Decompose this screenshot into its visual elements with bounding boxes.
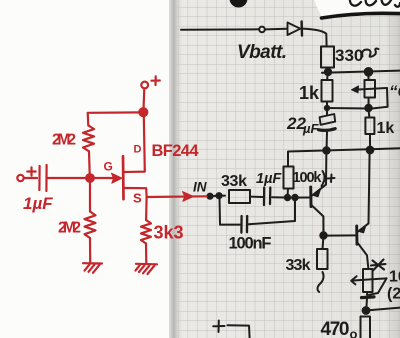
terminal Vbatt [259,27,265,33]
terminal plus top [141,82,148,89]
svg-text:2M2: 2M2 [58,220,81,237]
wire gate node up [88,151,91,175]
node output [363,307,370,314]
resistor 33k lower [317,237,328,292]
resistor 1k (left) [322,75,333,102]
wire base node to Q1 [288,197,310,199]
label 1k right [377,120,395,137]
svg-text:33k: 33k [286,257,311,274]
label Vbatt [237,42,287,63]
svg-text:BF244: BF244 [152,142,200,160]
label 470 [321,319,358,338]
label 330ohm [335,46,379,65]
trimmer P1 [352,76,388,109]
label 22uF [286,114,319,136]
node drain top [139,108,147,116]
label 33k lower [286,257,311,274]
wire 33k to 1uF [250,196,263,198]
label 2M2 upper [52,132,76,149]
wire cap to gate node [48,177,88,179]
wire source down [145,197,148,220]
wire terminal to diode [265,28,287,31]
top punched hole / black dot [230,0,248,8]
capacitor 1uF red [39,165,46,191]
svg-text:100nF: 100nF [229,235,272,253]
loop 100nF [220,198,296,233]
trimmer P2 (starred) [351,269,386,308]
wire 3k3 to ground [145,244,148,264]
plus bottom [213,321,224,333]
label G [104,160,113,174]
svg-text:1µF: 1µF [256,171,282,187]
resistor 100k [284,167,294,196]
rail output right [366,308,400,311]
wire terminal to cap [24,177,37,179]
transistor Q1 [311,151,327,234]
label 10 cut [389,269,400,286]
wire node to terminal plus [142,89,145,110]
svg-text:o: o [350,327,358,338]
svg-text:1k: 1k [377,120,395,137]
svg-text:“G: “G [389,82,400,101]
red labels [23,132,199,243]
node Q1 collector [320,232,326,238]
node rail B / 22uF [323,147,329,153]
label BF244 [152,142,200,160]
svg-text:Vbatt.: Vbatt. [237,42,287,63]
black labels [193,42,400,338]
capacitor 22uF [319,108,336,148]
node 1k/22uF [325,102,329,111]
svg-text:(2: (2 [387,286,400,303]
svg-text:D: D [134,144,142,156]
wire gate node down [89,181,91,211]
plus top [151,76,159,85]
terminal input left [17,175,23,181]
resistor 330ohm [321,47,334,68]
node input [216,193,221,198]
label S [133,191,142,206]
gate wire with arrow [93,173,123,183]
svg-text:10: 10 [389,269,400,286]
wire 2M2 lower to ground [89,238,91,263]
capacitor 1uF [264,188,270,206]
wire 1uF to base node [272,196,285,198]
output wire red arrow [147,192,207,202]
wire 330 to rail A [326,68,328,72]
resistor 470 [361,317,371,338]
node base B [292,195,297,200]
rail B [288,148,400,166]
label D [134,144,142,156]
resistor 33k input [229,190,250,203]
svg-text:IN: IN [193,180,207,195]
paper edge shadow [167,0,184,338]
wire IN terminal to node [212,195,225,197]
label 100nF [229,235,272,253]
label G quote [389,82,400,101]
source connection [124,188,147,197]
label (2 cut [387,286,400,303]
node base A [285,195,290,200]
ground right [136,264,158,274]
top-right white sheet [314,0,400,19]
svg-text:1µF: 1µF [23,194,53,213]
label 3k3 [154,223,184,243]
label 2M2 lower [58,220,81,237]
svg-text:33k: 33k [221,173,247,190]
svg-text:S: S [133,191,142,206]
svg-text:2M2: 2M2 [52,132,76,149]
node trimmer/1k [365,105,371,111]
label star [371,260,386,271]
svg-text:100k: 100k [293,170,323,186]
wire 2M2 top to rail [88,112,141,125]
label IN [193,180,207,195]
plus input [27,167,35,175]
resistor 1k (right) [365,111,374,148]
ground left [83,263,102,273]
wire mid node to trimmer node [327,107,368,110]
svg-text:470: 470 [321,319,350,338]
svg-text:3k3: 3k3 [154,223,184,243]
notebook graph paper background [168,0,400,338]
svg-text:G: G [104,160,113,174]
transistor Q2 [327,152,370,269]
svg-text:330: 330 [335,46,363,65]
node rail A / 330 [325,69,331,75]
terminal IN [207,194,212,199]
svg-text:1k: 1k [299,83,320,103]
label 100k [293,170,335,186]
wire: Vbatt input [181,28,259,31]
left white sheet [0,0,169,338]
label 1k left [299,83,320,103]
node rail A / trimmer [365,68,373,76]
rail A [322,71,400,73]
wire bottom-left plus [228,325,250,338]
wire drain [124,116,145,173]
resistor 3k3 [141,220,151,244]
label 33k input [221,173,247,190]
node gate [86,174,94,182]
node rail B / 1k right [367,147,374,154]
wire diode to 330 [303,29,327,47]
resistor 2M2 upper [83,126,94,152]
resistor 2M2 lower [85,212,96,239]
diode D1 [288,22,303,36]
label 1uF red [23,194,53,213]
svg-text:µF: µF [302,121,319,136]
JFET channel bar [122,156,125,199]
label 1uF input [256,171,282,187]
